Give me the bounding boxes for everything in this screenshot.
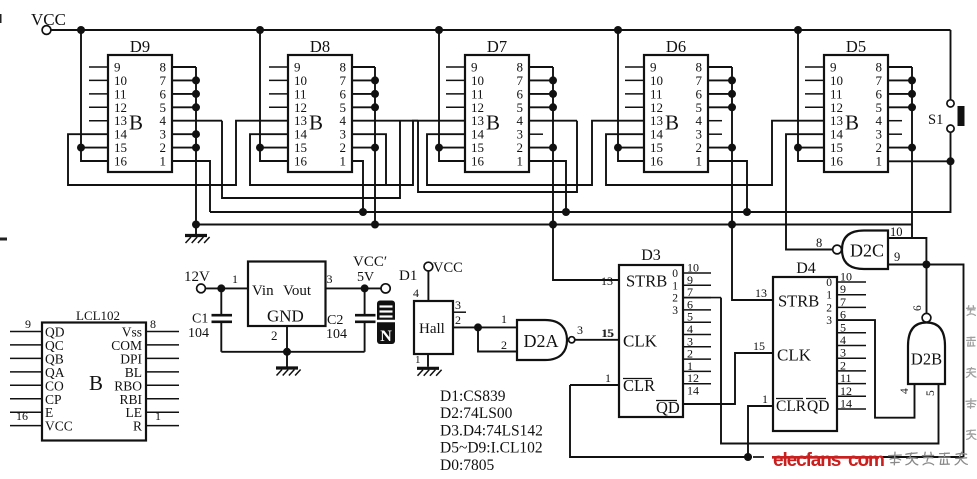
svg-text:CLK: CLK [777,346,812,365]
pin label D4 STRB [755,286,767,300]
wire D6 output bus [731,67,733,225]
wire D7 pin2 [529,144,557,152]
svg-text:B: B [129,111,143,135]
svg-text:9: 9 [894,250,900,264]
IC D9 (LCL102 counter/driver) [108,37,172,172]
node C1 junction [217,284,225,292]
power terminal VCC (Hall) [424,260,463,276]
svg-text:D9: D9 [130,37,150,56]
svg-text:16: 16 [114,154,128,169]
svg-text:16: 16 [471,154,485,169]
svg-text:1: 1 [160,154,167,169]
D9 left pin stubs 9-12 [89,67,108,121]
svg-text:CLR: CLR [776,398,807,415]
svg-text:16: 16 [650,154,664,169]
svg-text:VCC: VCC [433,260,463,276]
node VCC rail tap for D7 [435,26,443,34]
svg-text:D2B: D2B [911,350,942,369]
svg-text:0: 0 [826,277,832,289]
svg-text:14: 14 [840,397,852,411]
svg-text:104: 104 [188,326,209,341]
wire D6 pin8 [708,66,732,68]
svg-text:GND: GND [267,307,304,326]
svg-text:D5: D5 [846,37,866,56]
svg-text:5: 5 [925,390,937,396]
wire D9 pin1 to reset line [172,161,210,212]
svg-text:1: 1 [415,354,421,366]
svg-text:com: com [848,450,884,471]
wire D8 pin1 to reset line [352,161,367,216]
wire D9 pin3 [172,130,200,138]
node VCC rail tap for D5 [794,26,802,34]
wire D8 pin15 [260,147,288,149]
wire D8 pin16 to VCC [260,148,288,161]
wire VCC drop to D5 pin15 [797,30,799,148]
svg-text:4: 4 [413,286,419,300]
svg-text:13: 13 [755,286,767,300]
wire D5 pin14 to gate D2C input 8 [786,134,833,249]
wire D4 CLR to bottom rail [748,406,773,457]
IC D7 (LCL102 counter/driver) [465,37,529,172]
wire D5 pin1 to S1 [888,160,951,162]
svg-text:15: 15 [753,339,765,353]
wire D5 pin2 [888,144,916,152]
svg-text:9: 9 [25,317,31,331]
wire D8 pin14 to D7 pin13 [250,121,465,185]
svg-text:8: 8 [816,236,822,250]
wire D7 pin4 [529,120,577,122]
wire D9 pin5 [172,103,200,111]
svg-text:5V: 5V [357,270,374,285]
wire common reset line L1 [210,161,951,212]
svg-text:B: B [665,111,679,135]
wire D5 pin8 [888,66,912,68]
wire D9 pin2 [172,144,200,152]
node D2C/D2B junction [922,261,930,269]
Hall sensor D1 [414,301,453,354]
D5 left pin stubs 9-12 [805,67,824,107]
node D9 pin15 VCC junction [77,144,85,152]
svg-text:1: 1 [826,290,832,302]
svg-text:2: 2 [826,302,832,314]
wire D9 pin7 [172,76,200,84]
svg-text:D2C: D2C [850,241,884,261]
wire D2A output to D3 CLK [575,323,619,340]
svg-text:D0:7805: D0:7805 [440,457,495,474]
capacitor C2 [326,288,376,351]
wire D5 pin5 [888,103,916,111]
pin label D4 CLR [762,392,768,406]
wire D2B input 4 from D4 pin6 [837,320,915,418]
wire regulator output [326,272,382,288]
svg-text:LCL102: LCL102 [76,308,120,323]
wire junction to right rail [926,265,963,458]
IC D8 (LCL102 counter/driver) [288,37,352,172]
svg-text:16: 16 [830,154,844,169]
wire D6 bus to D4 STRB [732,225,773,301]
svg-text:8: 8 [150,317,156,331]
svg-text:1: 1 [762,392,768,406]
svg-text:10: 10 [890,225,903,239]
svg-text:STRB: STRB [626,272,667,291]
svg-text:1: 1 [696,154,703,169]
node bus-ground junction [371,221,379,229]
svg-text:16: 16 [16,409,28,423]
wire Hall pin1 to ground [415,354,428,367]
svg-text:104: 104 [326,327,347,342]
wire D5 pin7 [888,76,916,84]
wire VCC top rail [81,29,951,31]
svg-text:Vin: Vin [252,283,274,299]
capacitor C1 [188,288,232,351]
wire D6 pin1 to reset line [708,161,751,216]
node VCC rail tap for D6 [614,26,622,34]
node VCC rail tap for D8 [256,26,264,34]
wire D6 pin4 stub [708,120,722,122]
sensor D1 label [399,268,417,284]
svg-text:R: R [133,419,142,434]
wire VCC to Hall pin4 [413,271,428,301]
svg-text:12V: 12V [184,269,210,285]
nand gate D2A [517,320,575,360]
svg-text:Vout: Vout [283,283,312,299]
wire D8 pin8 [352,66,375,68]
svg-text:4: 4 [899,388,911,394]
svg-text:3: 3 [455,298,461,312]
svg-text:elecfans: elecfans [773,450,841,471]
svg-text:1: 1 [340,154,347,169]
wire pin4 link D9-D8 [222,121,400,198]
wire pin4 link D8-D7 [418,121,577,192]
wire D2A input 1 [478,312,517,327]
wire D7 pin15 [439,147,465,149]
wire D7 pin8 [529,66,553,68]
wire D2B output [912,265,927,314]
svg-text:1: 1 [605,371,611,385]
svg-text:2: 2 [672,293,678,305]
wire D9 pin6 [172,90,200,98]
wire D7 pin3 stub [529,133,543,135]
node S1 / pin1 junction [947,157,955,165]
wire Hall pin2 output [453,313,478,327]
svg-text:D5~D9:I.CL102: D5~D9:I.CL102 [440,440,543,457]
svg-text:D4: D4 [796,260,816,277]
svg-text:C1: C1 [192,312,208,327]
wire D7 pin14 to D6 pin13 [427,121,644,185]
wire D8 pin3 [352,134,386,185]
pin label D3 CLK [601,326,613,340]
wire 12V input [205,272,248,288]
svg-text:2: 2 [501,338,507,352]
wire D2C input 9 [888,250,926,265]
wire VCC drop to D6 pin15 [617,30,619,148]
node D5 pin15 VCC junction [794,144,802,152]
ground (regulator) [276,352,301,376]
svg-text:B: B [845,111,859,135]
magnet (N pole) [377,301,395,346]
wire D7 bus to D3 STRB [553,225,619,281]
power terminal VCC (top-left) [31,10,66,34]
wire bottom rail [570,385,964,457]
svg-text:14: 14 [687,384,699,398]
wire D9 pin8 [172,66,196,68]
wire VCC drop to D9 pin15 [80,30,82,148]
wire D7 pin1 to reset line [529,161,570,216]
IC LCL102 pinout reference [10,308,179,441]
wire D7 output bus [552,67,554,225]
node ground junction [192,221,200,229]
D8 left pin stubs 9-12 [269,67,288,107]
svg-text:D3: D3 [641,247,661,264]
IC D5 (LCL102 counter/driver) [824,37,888,172]
wire D2C input 10 [888,225,926,265]
svg-text:D6: D6 [666,37,686,56]
wire D7 pin7 [529,76,557,84]
node D7 pin15 VCC junction [435,144,443,152]
svg-text:D2:74LS00: D2:74LS00 [440,405,513,422]
ground (main) [185,225,210,244]
wire D5 pin16 to VCC [798,148,824,161]
wire D5 pin15 [798,147,824,149]
wire D9 pin14 to D8 pin13 [68,121,288,185]
wire regulator pin2 [271,326,287,352]
svg-text:3: 3 [826,315,832,327]
wire VCC terminal to rail [51,29,81,31]
wire D9 pin15 [81,147,108,149]
svg-text:D7: D7 [487,37,507,56]
wire D3 pin7 stub [683,297,721,299]
wire D6 pin6 [708,90,736,98]
wire D7 pin5 [529,103,557,111]
wire D5 output bus [911,67,913,238]
wire D6 pin15 [618,147,644,149]
wire D2A input 2 [478,327,517,352]
wire D6 pin16 to VCC [618,148,644,161]
pin label D3 STRB [601,274,613,288]
svg-text:S1: S1 [928,112,943,128]
wire D9 output bus [195,67,197,225]
node C2 junction [361,284,369,292]
node D4 CLR rail junction [744,453,752,461]
wire D8 output bus [374,67,376,225]
node bus-ground junction [728,221,736,229]
wire D5 pin3 stub [888,133,902,135]
D6 left pin stubs 9-12 [625,67,644,107]
pin label D4 CLK [753,339,765,353]
regulator D0 7805 [248,262,326,327]
wire D8 pin4 [352,120,418,122]
parts list annotation [440,388,543,474]
svg-text:1: 1 [501,312,507,326]
svg-text:VCC′: VCC′ [353,254,387,270]
svg-text:15: 15 [601,326,613,340]
wire D2B input 5 from D3 pin7 [721,298,939,444]
svg-text:D1: D1 [399,268,417,284]
svg-text:B: B [486,111,500,135]
svg-text:C2: C2 [327,313,343,328]
IC D4 (74LS142) [773,260,866,431]
wire D8 pin6 [352,90,379,98]
nand gate D2C [816,231,888,270]
wire D6 pin7 [708,76,736,84]
svg-text:D1:CS839: D1:CS839 [440,388,506,405]
node D6 pin15 VCC junction [614,144,622,152]
svg-text:1: 1 [876,154,883,169]
wire D7 pin6 [529,90,557,98]
svg-text:13: 13 [601,274,613,288]
IC D6 (LCL102 counter/driver) [644,37,708,172]
ground (Hall) [417,368,442,376]
svg-text:D8: D8 [310,37,330,56]
svg-text:2: 2 [455,313,461,327]
wire D3 QD to D4 CLK [683,353,773,404]
svg-text:Hall: Hall [419,321,445,337]
svg-text:D3.D4:74LS142: D3.D4:74LS142 [440,422,543,439]
wire D6 pin5 [708,103,736,111]
svg-text:16: 16 [294,154,308,169]
svg-text:2: 2 [271,328,278,343]
pin label D3 CLR [605,371,611,385]
node VCC rail junction [77,26,85,34]
svg-text:VCC: VCC [31,10,66,29]
svg-text:1: 1 [517,154,524,169]
svg-text:3: 3 [672,305,678,317]
node D2A input junction [474,323,482,331]
wire VCC drop to D7 pin15 [438,30,440,148]
power terminal 12V [184,269,210,293]
IC D3 (74LS142) [619,247,711,417]
svg-text:0: 0 [672,268,678,280]
svg-text:1: 1 [232,272,238,286]
svg-text:VCC: VCC [45,419,73,434]
wire VCC drop to D8 pin15 [259,30,261,148]
svg-text:3: 3 [577,323,583,337]
wire Hall pin3 stub [453,298,466,312]
svg-text:N: N [380,328,392,345]
svg-text:B: B [309,111,323,135]
wire D9 pin4 [172,120,222,122]
node bus-ground junction [549,221,557,229]
node regulator ground junction [283,348,291,356]
svg-text:6: 6 [912,305,924,311]
svg-text:1: 1 [672,280,678,292]
svg-text:B: B [89,371,103,395]
wire D5 pin6 [888,90,916,98]
svg-text:STRB: STRB [778,292,819,311]
wire D8 pin2 [352,144,379,152]
wire regulator ground rail [221,351,364,353]
wire D7 pin16 to VCC [439,148,465,161]
wire D5 pin4 stub [888,120,902,122]
wire D3 CLR from rail [570,384,619,386]
wire common ground line L2 [196,224,912,226]
svg-text:CLK: CLK [623,332,658,351]
svg-text:D2A: D2A [524,331,559,351]
node D8 pin15 VCC junction [256,144,264,152]
wire D6 pin2 [708,144,736,152]
svg-text:3: 3 [327,272,333,286]
wire D6 pin14 to D5 pin13 [606,121,824,185]
wire D8 pin7 [352,76,379,84]
svg-text:QD: QD [807,398,829,415]
nand gate D2B [908,313,945,384]
D7 left pin stubs 9-12 [446,67,465,107]
switch S1 [928,30,965,161]
wire D8 pin5 [352,103,379,111]
wire D6 pin3 stub [708,133,722,135]
power terminal VCC' 5V [353,254,390,293]
svg-text:1: 1 [155,409,161,423]
wire D9 pin16 to VCC [81,148,108,161]
